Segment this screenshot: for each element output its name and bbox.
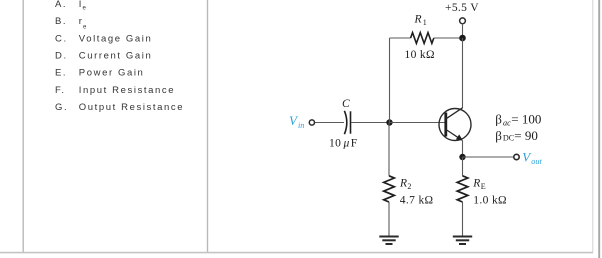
wire: base node down to R2 <box>388 123 390 176</box>
svg-text:+5.5 V: +5.5 V <box>445 2 479 14</box>
node: emitter output junction dot <box>459 154 465 160</box>
node: supply junction dot <box>459 35 466 42</box>
svg-text:DC: DC <box>503 133 515 142</box>
wire: output node down to RE <box>462 157 464 176</box>
svg-text:= 100: = 100 <box>511 111 541 126</box>
svg-text:C.: C. <box>55 33 68 44</box>
svg-text:R: R <box>414 14 422 26</box>
answer list <box>55 0 184 113</box>
svg-text:C: C <box>342 98 350 110</box>
transistor Q1 emitter stroke with arrow <box>446 130 463 141</box>
wire: base node up to R1 <box>389 38 391 123</box>
label Vin <box>289 113 304 130</box>
wire: R1 right lead <box>434 37 463 39</box>
svg-text:out: out <box>531 157 542 166</box>
transistor Q1 base bar <box>444 113 447 137</box>
svg-text:G.: G. <box>55 102 68 113</box>
label Vout <box>522 149 542 165</box>
label beta_ac = 100 <box>495 111 541 127</box>
resistor R2 zigzag <box>384 176 395 202</box>
svg-text:Voltage Gain: Voltage Gain <box>79 33 153 44</box>
label beta_DC = 90 <box>495 128 538 143</box>
svg-text:10: 10 <box>329 138 341 150</box>
ground symbol (R2) <box>379 237 398 245</box>
svg-text:Input Resistance: Input Resistance <box>79 85 175 96</box>
svg-text:B.: B. <box>55 16 67 27</box>
resistor R1 zigzag <box>411 33 434 44</box>
transistor Q1 collector stroke <box>446 108 463 119</box>
Vin terminal circle <box>309 120 314 125</box>
wire: Vin terminal to capacitor <box>315 122 344 124</box>
svg-text:β: β <box>495 128 502 143</box>
label RE <box>472 177 486 190</box>
wire: base node to transistor base <box>390 122 446 124</box>
svg-text:Current Gain: Current Gain <box>79 51 153 62</box>
svg-text:10 kΩ: 10 kΩ <box>405 49 435 61</box>
svg-text:F.: F. <box>55 85 66 96</box>
svg-text:Power Gain: Power Gain <box>79 68 145 79</box>
node: base junction dot <box>386 119 392 125</box>
wire: supply down to collector <box>462 38 464 108</box>
wire: supply terminal down to junction <box>462 24 464 39</box>
svg-text:E.: E. <box>55 68 67 79</box>
svg-text:F: F <box>351 138 358 150</box>
Vout terminal circle <box>514 154 519 159</box>
capacitor C1 curved plate <box>344 111 346 134</box>
wire: R2 to ground <box>388 202 390 236</box>
table borders (decorative) <box>23 0 207 252</box>
label R2 <box>399 177 411 190</box>
svg-text:E: E <box>481 182 486 191</box>
ground symbol (RE) <box>453 237 472 245</box>
svg-text:R: R <box>472 177 480 189</box>
capacitor C1 straight plate <box>350 111 352 133</box>
svg-text:in: in <box>298 121 304 130</box>
svg-text:4.7 kΩ: 4.7 kΩ <box>400 194 434 206</box>
svg-text:D.: D. <box>55 51 68 62</box>
transistor Q1 circle <box>439 109 471 141</box>
wire: output node to Vout terminal <box>463 156 514 158</box>
svg-text:ac: ac <box>503 119 511 128</box>
svg-text:β: β <box>495 111 502 126</box>
svg-text:Output Resistance: Output Resistance <box>79 102 184 113</box>
resistor RE zigzag <box>457 176 468 202</box>
svg-text:R: R <box>399 177 407 189</box>
wire: capacitor to base node <box>351 122 390 124</box>
svg-text:1: 1 <box>423 18 427 27</box>
svg-text:1.0 kΩ: 1.0 kΩ <box>473 194 507 206</box>
svg-text:μ: μ <box>343 138 350 150</box>
wire: emitter down to output node <box>462 141 464 158</box>
wire: R1 left lead <box>390 37 411 39</box>
label 10 uF <box>329 138 358 150</box>
svg-text:A.: A. <box>55 0 67 10</box>
svg-text:2: 2 <box>407 182 411 191</box>
supply terminal circle <box>460 18 466 24</box>
label R1 <box>414 14 427 28</box>
svg-text:= 90: = 90 <box>514 128 538 143</box>
wire: RE to ground <box>462 202 464 236</box>
